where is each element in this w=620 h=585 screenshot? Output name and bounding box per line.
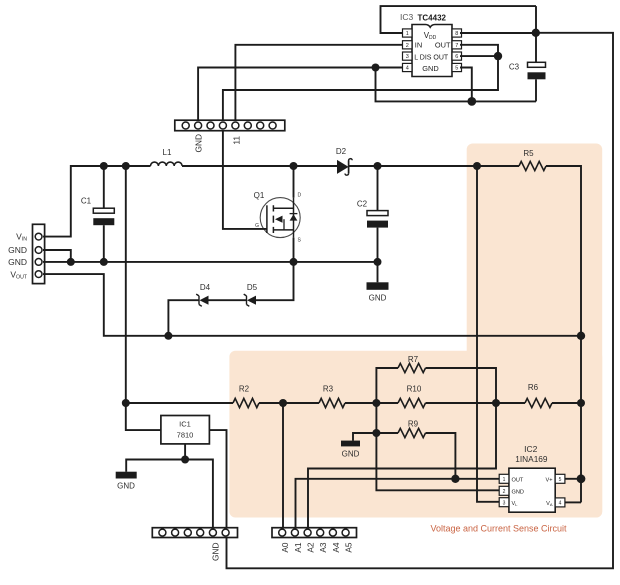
inductor L1 bbox=[151, 148, 183, 166]
ground symbol at IC1 bbox=[116, 472, 137, 491]
svg-text:A4: A4 bbox=[331, 542, 341, 553]
transistor Q1 MOSFET bbox=[254, 191, 302, 244]
svg-text:A2: A2 bbox=[305, 542, 315, 553]
svg-text:R5: R5 bbox=[523, 149, 534, 158]
wire D4 to D5 bbox=[209, 299, 247, 301]
wire IC3 pin8 to VDD node bbox=[460, 6, 540, 37]
svg-text:4: 4 bbox=[406, 66, 409, 72]
svg-text:1: 1 bbox=[406, 31, 409, 37]
svg-text:V+: V+ bbox=[546, 477, 553, 483]
svg-text:GND: GND bbox=[117, 482, 135, 491]
wire Vout from J1 pin4 to sense node bbox=[43, 274, 581, 340]
svg-text:OUT: OUT bbox=[512, 477, 524, 483]
svg-text:6: 6 bbox=[455, 54, 458, 60]
wire GND J1 pin2 jumper bbox=[43, 250, 71, 262]
wire IC3 pin7 pin6 OUT to header pin4 bbox=[223, 45, 502, 120]
svg-text:GND: GND bbox=[369, 294, 387, 303]
svg-text:A0: A0 bbox=[280, 542, 290, 553]
wire IC3 pin1 VDD top loop bbox=[381, 6, 537, 33]
svg-text:3: 3 bbox=[503, 500, 506, 506]
svg-text:TC4432: TC4432 bbox=[418, 14, 447, 23]
resistor R6 bbox=[525, 383, 552, 408]
wire VDD supply from regulator (right edge) bbox=[227, 33, 614, 569]
svg-text:A1: A1 bbox=[293, 542, 303, 553]
svg-text:VIN: VIN bbox=[16, 232, 27, 243]
connector J2 gate-drive header bbox=[175, 120, 285, 152]
svg-text:4: 4 bbox=[559, 501, 562, 507]
wire R5 right / V+ column bbox=[546, 166, 585, 502]
wire IC3 pin2 IN from header pin5 bbox=[235, 45, 403, 120]
wire IC3 pin4 GND to header bbox=[198, 68, 403, 121]
svg-text:R2: R2 bbox=[239, 385, 250, 394]
resistor R2 bbox=[233, 385, 259, 408]
svg-text:GND: GND bbox=[194, 134, 204, 152]
svg-text:GND: GND bbox=[211, 542, 221, 560]
connector J4 analog header A0-A5 bbox=[272, 528, 357, 553]
svg-text:L DIS OUT: L DIS OUT bbox=[414, 54, 449, 61]
wire shunt+ to IC2 pin3 bbox=[477, 166, 499, 502]
svg-text:VA: VA bbox=[546, 501, 553, 507]
wire Vin from J1 pin1 up to input rail bbox=[43, 162, 151, 237]
svg-text:GND: GND bbox=[8, 245, 27, 255]
svg-text:1INA169: 1INA169 bbox=[515, 454, 548, 464]
wire Q1 source bbox=[293, 238, 295, 262]
diode D2 schottky bbox=[336, 147, 352, 175]
resistor R9 bbox=[353, 420, 460, 483]
wire divider row bbox=[122, 399, 233, 407]
svg-text:R9: R9 bbox=[408, 420, 419, 429]
wire switch node L1 to D2 anode bbox=[182, 162, 337, 170]
svg-text:Voltage and Current Sense Circ: Voltage and Current Sense Circuit bbox=[430, 524, 567, 534]
svg-text:IC3: IC3 bbox=[400, 12, 414, 22]
svg-text:S: S bbox=[298, 238, 302, 244]
capacitor C1 bbox=[81, 166, 114, 262]
svg-text:2: 2 bbox=[406, 43, 409, 49]
ground symbol below C2 bbox=[367, 262, 389, 303]
wire IC3 ground line bbox=[372, 64, 537, 106]
wire GND rail from J1 pin3 to C2 bbox=[43, 258, 382, 266]
wire IC3 pin5 to ground line bbox=[460, 68, 472, 102]
svg-text:3: 3 bbox=[406, 54, 409, 60]
wire divider tap to A0 bbox=[282, 403, 284, 528]
svg-text:A5: A5 bbox=[343, 542, 353, 553]
diode D4 zener bbox=[168, 283, 210, 336]
svg-text:7810: 7810 bbox=[177, 431, 194, 440]
wire R3 to R10 bbox=[345, 399, 398, 407]
svg-text:R7: R7 bbox=[408, 355, 419, 364]
svg-text:D2: D2 bbox=[336, 147, 347, 156]
resistor R10 bbox=[398, 385, 426, 408]
wire D2 cathode to shunt node bbox=[349, 162, 519, 170]
svg-text:GND: GND bbox=[8, 257, 27, 267]
wire ground column to IC2 pin2 bbox=[372, 403, 499, 490]
resistor R3 bbox=[319, 385, 345, 408]
connector J3 ground header bbox=[152, 528, 237, 561]
svg-text:A3: A3 bbox=[318, 542, 328, 553]
wire IC1 input from Vin rail bbox=[126, 166, 161, 430]
resistor R7 bbox=[376, 355, 496, 403]
svg-text:IN: IN bbox=[415, 41, 422, 50]
wire IC1 output to header bbox=[209, 430, 226, 528]
wire IC2 OUT row to A1 bbox=[296, 479, 500, 528]
wire IC1 ground node bbox=[126, 444, 213, 528]
svg-text:GND: GND bbox=[422, 64, 438, 73]
svg-text:D5: D5 bbox=[247, 283, 258, 292]
op-amp current sense IC2 INA169 bbox=[499, 444, 565, 512]
wire IC2 pin4 to V+ column bbox=[565, 501, 581, 503]
svg-text:GND: GND bbox=[342, 450, 360, 459]
svg-text:11: 11 bbox=[232, 136, 242, 145]
svg-text:OUT: OUT bbox=[435, 41, 451, 50]
svg-text:8: 8 bbox=[455, 31, 458, 37]
svg-text:IC1: IC1 bbox=[179, 420, 191, 429]
wire Q1 gate from header pin4 bbox=[223, 131, 267, 229]
svg-text:IC2: IC2 bbox=[524, 444, 538, 454]
capacitor C3 bbox=[509, 33, 546, 102]
svg-text:R10: R10 bbox=[407, 385, 422, 394]
svg-text:5: 5 bbox=[455, 66, 458, 72]
wire IC2 pin5 to V+ column bbox=[565, 478, 581, 480]
svg-text:7: 7 bbox=[455, 43, 458, 49]
svg-text:D: D bbox=[298, 193, 302, 199]
wire R6 right bbox=[552, 402, 581, 404]
svg-text:VOUT: VOUT bbox=[10, 269, 27, 280]
sense circuit highlight region bbox=[229, 144, 602, 518]
svg-text:VL: VL bbox=[512, 501, 519, 507]
svg-text:C2: C2 bbox=[357, 200, 368, 209]
svg-text:2: 2 bbox=[503, 489, 506, 495]
op-amp driver IC3 TC4432 bbox=[400, 12, 462, 77]
svg-text:Q1: Q1 bbox=[254, 191, 265, 200]
svg-text:G: G bbox=[255, 223, 259, 229]
diode D5 zener bbox=[244, 283, 258, 306]
ground symbol at R9 bbox=[341, 441, 360, 459]
svg-text:5: 5 bbox=[559, 477, 562, 483]
label Voltage and Current Sense Circuit bbox=[430, 524, 567, 534]
wire D5 anode up to GND rail bbox=[256, 262, 294, 300]
svg-text:R6: R6 bbox=[528, 383, 539, 392]
svg-text:GND: GND bbox=[512, 489, 524, 495]
wire Q1 drain bbox=[293, 166, 295, 198]
connector J1 V_IN/GND/V_OUT header bbox=[8, 224, 44, 283]
svg-text:L1: L1 bbox=[163, 148, 172, 157]
svg-text:D4: D4 bbox=[200, 283, 211, 292]
resistor R5 shunt bbox=[519, 149, 546, 171]
wire R2 to R3 bbox=[259, 399, 319, 407]
wire sense output to A2 bbox=[308, 403, 496, 528]
svg-text:C1: C1 bbox=[81, 197, 92, 206]
svg-text:R3: R3 bbox=[323, 385, 334, 394]
wire R10 to R6 bbox=[426, 399, 526, 407]
svg-text:1: 1 bbox=[503, 477, 506, 483]
svg-text:C3: C3 bbox=[509, 63, 520, 72]
op-amp regulator IC1 7810 bbox=[161, 416, 210, 444]
capacitor C2 bbox=[357, 166, 388, 262]
